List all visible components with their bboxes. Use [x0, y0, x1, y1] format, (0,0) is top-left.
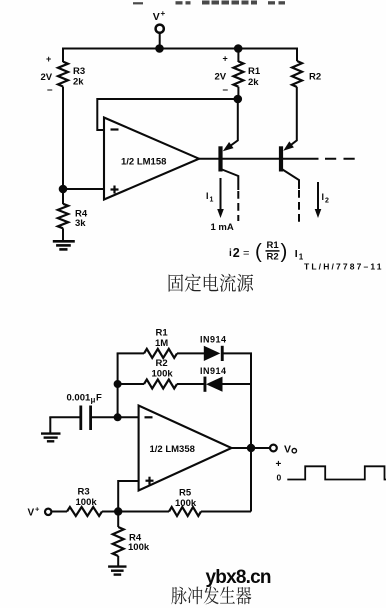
wire cap left [49, 416, 79, 418]
svg-text:R2: R2 [267, 252, 279, 263]
svg-text:V: V [28, 508, 35, 519]
wire R5 to output rail [201, 511, 251, 513]
wire right vertical rail [250, 384, 252, 512]
svg-text:V: V [153, 11, 160, 23]
wire left vertical rail [117, 353, 119, 417]
junction dot minus node [114, 413, 122, 421]
svg-text:1: 1 [210, 197, 214, 204]
waveform square wave [287, 466, 386, 479]
svg-text:ybx8.cn: ybx8.cn [206, 567, 272, 588]
wire R1 feedback branch left [118, 353, 144, 354]
junction dot output [247, 444, 255, 452]
I1 arrowhead [217, 209, 224, 218]
svg-text:R1: R1 [156, 328, 169, 339]
junction dot R1 bottom feedback [234, 95, 243, 104]
op-amp U2 triangle [139, 406, 232, 491]
svg-text:+: + [161, 9, 166, 18]
resistor R4 [58, 204, 68, 229]
svg-text:R5: R5 [179, 488, 192, 499]
svg-text:R1: R1 [248, 66, 261, 77]
op-amp U1 minus sign [111, 128, 119, 130]
svg-text:2V: 2V [215, 72, 227, 83]
wire R2 branch left [118, 383, 144, 385]
op-amp U2 minus sign [145, 416, 153, 418]
junction dot R3/R4/R5 node [114, 507, 122, 515]
I2 arrowhead [315, 209, 322, 218]
wire D1 to right rail [224, 353, 252, 384]
resistor R2 bottom [144, 380, 177, 389]
junction dot plus input node [59, 185, 68, 194]
wire cap ground stub [49, 417, 51, 433]
svg-text:1M: 1M [155, 338, 168, 349]
svg-text:2: 2 [233, 246, 240, 260]
wire Q2 emitter [286, 87, 297, 149]
svg-text:1/2 LM158: 1/2 LM158 [121, 157, 166, 168]
svg-text:R1: R1 [267, 240, 280, 251]
caption 1 fixed current source [169, 274, 254, 292]
wire plus input [63, 188, 104, 190]
wire left branch lower [62, 87, 64, 205]
svg-text:): ) [281, 240, 288, 263]
svg-text:0: 0 [277, 473, 282, 483]
wire output [232, 447, 271, 449]
wire right branch upper [296, 48, 298, 62]
wire Q2 collector dashed [298, 190, 300, 222]
svg-text:3k: 3k [75, 218, 86, 229]
wire Q1 collector dashed [237, 191, 239, 221]
wire node to R4 [117, 512, 119, 528]
svg-text:–: – [47, 85, 53, 96]
svg-text:F: F [96, 393, 102, 404]
wire R2 to D2 [177, 383, 206, 385]
svg-text:1/2 LM358: 1/2 LM358 [150, 444, 195, 455]
op-amp U1 plus sign [111, 186, 119, 194]
svg-text:R3: R3 [78, 487, 90, 498]
svg-text:μ: μ [91, 395, 96, 404]
wire D2 to right rail [223, 383, 252, 385]
ground below capacitor [41, 434, 61, 442]
wire R1 to D1 [177, 352, 205, 354]
svg-text:+: + [223, 54, 228, 64]
wire top rail [63, 48, 297, 50]
svg-text:I: I [322, 192, 325, 202]
svg-text:2k: 2k [73, 77, 84, 88]
svg-text:=: = [243, 247, 249, 259]
wire Q1 emitter [226, 99, 238, 149]
terminal V+ top [156, 25, 164, 33]
svg-text:100k: 100k [128, 542, 150, 553]
wire plus input [118, 481, 138, 512]
svg-text:IN914: IN914 [200, 335, 227, 345]
svg-text:2V: 2V [41, 72, 53, 83]
svg-text:+: + [35, 505, 40, 514]
svg-text:(: ( [255, 240, 262, 263]
transistor Q1 collector [222, 170, 238, 191]
resistor R3 [58, 62, 68, 87]
wire op-amp output to bases [199, 158, 319, 160]
wire left branch upper [62, 48, 64, 63]
resistor R5 [169, 507, 201, 516]
wire R1 to node [237, 87, 239, 99]
svg-text:100k: 100k [76, 497, 98, 508]
svg-text:+: + [46, 54, 51, 64]
svg-text:I: I [295, 248, 298, 260]
wire R4 to ground [117, 556, 119, 566]
svg-text:TL/H/7787–11: TL/H/7787–11 [304, 262, 384, 272]
svg-text:100k: 100k [152, 369, 174, 380]
cropped caption fragment top edge [133, 1, 285, 5]
wire R3 to node [102, 511, 169, 513]
wire bottom rail Vin [51, 511, 67, 513]
svg-text:i: i [229, 248, 232, 259]
wire feedback loop [97, 99, 238, 130]
wire V+ stub [159, 33, 161, 49]
ground below R4 bottom [108, 567, 126, 575]
equation i2 = (R1/R2) I1 [229, 240, 304, 263]
wire R4 to ground [62, 228, 64, 241]
resistor R1 [233, 61, 243, 86]
terminal V+ input [45, 509, 51, 515]
arrow I2 [317, 182, 319, 211]
svg-text:I: I [206, 191, 209, 201]
svg-text:R2: R2 [156, 358, 168, 369]
diode D1 [204, 346, 221, 361]
junction dot R1 top [234, 44, 243, 53]
op-amp U1 triangle [104, 118, 199, 200]
junction dot V+ rail [155, 44, 164, 53]
svg-text:0.001: 0.001 [67, 393, 91, 404]
svg-text:2k: 2k [248, 77, 259, 88]
junction dot R2 branch [114, 380, 122, 388]
svg-text:1 mA: 1 mA [211, 222, 234, 233]
svg-text:V: V [284, 444, 291, 456]
svg-text:IN914: IN914 [200, 366, 227, 376]
ground below R4 [53, 241, 75, 249]
caption 2 pulse generator [171, 586, 251, 604]
Q1 emitter arrowhead [223, 142, 234, 151]
svg-text:R3: R3 [73, 66, 85, 77]
capacitor C1 plates [79, 406, 82, 431]
svg-text:1: 1 [299, 253, 304, 262]
diode D2 [206, 377, 223, 392]
svg-text:2: 2 [325, 198, 329, 205]
wire cap right / minus input [92, 416, 139, 418]
arrow I1 [220, 178, 222, 211]
transistor Q2 collector [283, 170, 300, 190]
wire dashed base line extension [325, 158, 359, 160]
terminal Vo output [270, 445, 277, 452]
resistor R3 bottom [67, 507, 102, 516]
svg-text:R2: R2 [309, 72, 321, 83]
resistor R2 [292, 61, 302, 87]
svg-text:–: – [223, 85, 229, 96]
wire R1 branch upper [237, 49, 239, 63]
transistor Q2 base bar [279, 146, 283, 171]
svg-text:100k: 100k [175, 498, 197, 509]
transistor Q1 base bar [218, 146, 222, 171]
op-amp U2 plus sign [146, 477, 154, 485]
svg-text:+: + [276, 459, 282, 470]
Q2 emitter arrowhead [283, 141, 294, 150]
resistor R1 bottom [144, 349, 177, 358]
resistor R4 bottom [113, 527, 124, 556]
